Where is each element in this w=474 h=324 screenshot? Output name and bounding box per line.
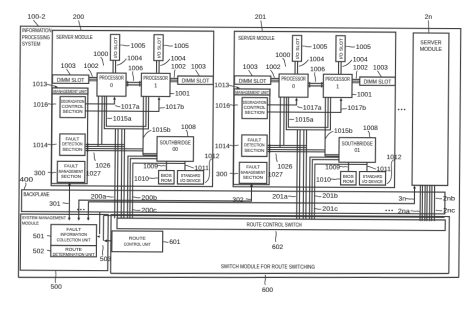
svg-text:SERVER: SERVER xyxy=(420,41,442,47)
svg-text:DETERMINATION UNIT: DETERMINATION UNIT xyxy=(53,252,95,258)
svg-text:PROCESSING: PROCESSING xyxy=(22,35,50,41)
svg-text:500: 500 xyxy=(51,284,62,291)
svg-text:3n: 3n xyxy=(398,196,406,203)
svg-text:201b: 201b xyxy=(322,193,338,200)
svg-text:ROUTE: ROUTE xyxy=(129,236,146,242)
svg-text:400: 400 xyxy=(20,177,34,184)
svg-text:602: 602 xyxy=(272,244,283,251)
svg-text:601: 601 xyxy=(169,239,180,246)
svg-text:301: 301 xyxy=(49,201,60,208)
svg-text:201c: 201c xyxy=(322,206,338,213)
svg-text:FAULT: FAULT xyxy=(66,227,81,233)
svg-text:MODULE: MODULE xyxy=(22,221,39,226)
ellipsis between module 201 and 2n xyxy=(398,109,406,111)
svg-text:501: 501 xyxy=(33,233,44,240)
wire 503 route determination to route control unit xyxy=(99,212,101,234)
ellipsis before 2na xyxy=(385,210,393,212)
switch module box xyxy=(111,215,450,276)
fault information collection unit box xyxy=(51,224,97,245)
svg-text:ROUTE: ROUTE xyxy=(65,247,82,253)
route determination unit box xyxy=(51,245,97,256)
svg-text:COLLECTION UNIT: COLLECTION UNIT xyxy=(57,237,91,243)
svg-text:2n: 2n xyxy=(425,14,433,21)
svg-text:00: 00 xyxy=(172,147,178,153)
svg-text:2nc: 2nc xyxy=(443,208,456,215)
wire 3n module 2n to SMM xyxy=(88,186,414,219)
svg-text:502: 502 xyxy=(33,248,44,255)
svg-text:2nb: 2nb xyxy=(443,196,455,203)
svg-text:MODULE: MODULE xyxy=(420,47,443,53)
svg-text:BACKPLANE: BACKPLANE xyxy=(23,192,49,198)
server module 200 xyxy=(31,30,220,219)
svg-text:ROUTE CONTROL SWITCH: ROUTE CONTROL SWITCH xyxy=(247,222,302,228)
svg-text:201a: 201a xyxy=(272,193,288,200)
system management module box xyxy=(20,214,108,271)
ellipsis backplane left xyxy=(77,209,85,211)
wire 301 fault mgmt 200 to SMM xyxy=(68,185,70,218)
svg-text:200b: 200b xyxy=(141,195,157,202)
svg-text:SWITCH MODULE FOR ROUTE SWITCH: SWITCH MODULE FOR ROUTE SWITCHING xyxy=(221,264,315,271)
information processing system outer box xyxy=(18,26,460,280)
svg-text:CONTROL UNIT: CONTROL UNIT xyxy=(124,242,151,248)
route control switch bar xyxy=(117,218,445,230)
svg-text:200: 200 xyxy=(73,14,84,21)
module 2n bundle wires xyxy=(420,185,435,221)
server module 201 xyxy=(213,31,402,220)
svg-text:201: 201 xyxy=(255,14,266,21)
svg-text:503: 503 xyxy=(100,256,111,263)
svg-text:100-2: 100-2 xyxy=(27,14,45,21)
server module 2n box xyxy=(412,33,449,185)
svg-text:600: 600 xyxy=(262,287,273,294)
svg-text:INFORMATION: INFORMATION xyxy=(22,28,52,34)
svg-text:01: 01 xyxy=(354,148,360,154)
svg-text:200a: 200a xyxy=(91,194,107,201)
svg-text:SYSTEM: SYSTEM xyxy=(22,42,41,48)
svg-text:INFORMATION: INFORMATION xyxy=(60,232,87,238)
wire 302 fault mgmt 201 to SMM xyxy=(79,185,252,219)
backplane box xyxy=(22,190,445,214)
route control unit box xyxy=(112,231,163,252)
svg-text:200c: 200c xyxy=(141,207,157,214)
svg-text:2na: 2na xyxy=(398,208,410,215)
